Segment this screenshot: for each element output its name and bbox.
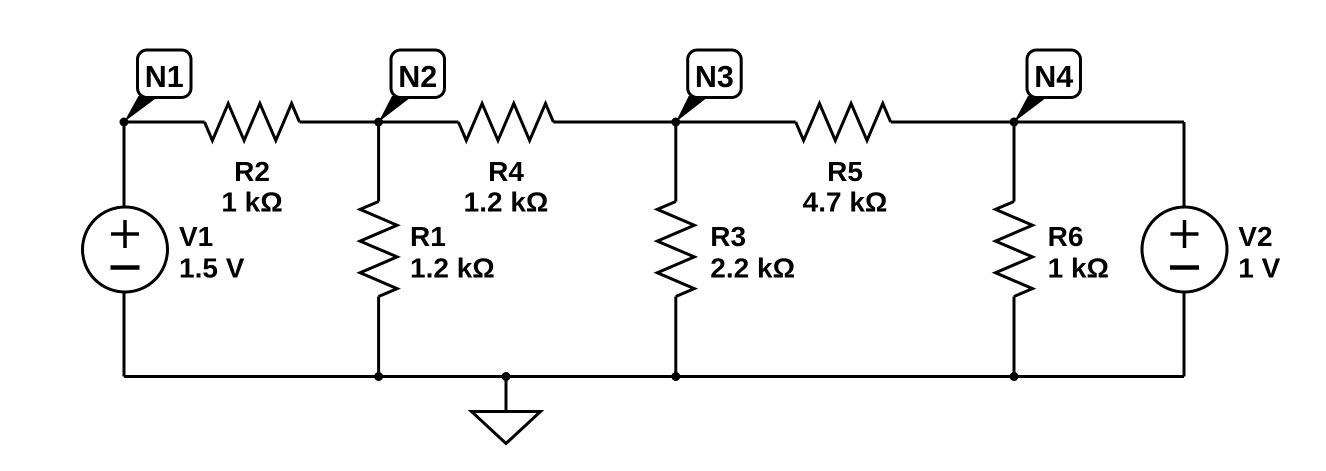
label V1 <box>179 221 245 283</box>
voltage source V2 <box>1142 207 1227 292</box>
node label N2 <box>379 50 445 122</box>
wire bottom rail <box>124 375 1184 378</box>
svg-text:R2: R2 <box>234 156 270 187</box>
wire R6 bottom stub <box>1013 297 1016 377</box>
ground <box>472 377 541 444</box>
svg-text:4.7 kΩ: 4.7 kΩ <box>803 187 888 218</box>
node label N4 <box>1014 50 1081 122</box>
label V2 <box>1238 221 1280 283</box>
svg-text:N4: N4 <box>1034 60 1073 94</box>
svg-text:1 V: 1 V <box>1238 252 1280 283</box>
svg-text:V2: V2 <box>1238 221 1272 252</box>
resistor R1 <box>360 202 397 297</box>
svg-text:2.2 kΩ: 2.2 kΩ <box>710 252 795 283</box>
junction R6-bottom <box>1010 372 1019 381</box>
label R2 <box>221 156 282 218</box>
label R5 <box>803 156 888 218</box>
resistor R6 <box>996 202 1033 297</box>
svg-text:N1: N1 <box>145 60 184 94</box>
wire R3 bottom stub <box>674 297 677 377</box>
resistor R3 <box>657 202 694 297</box>
node N3 dot <box>671 118 680 127</box>
svg-text:1 kΩ: 1 kΩ <box>1048 252 1109 283</box>
svg-text:R5: R5 <box>827 156 863 187</box>
label R4 <box>464 156 549 218</box>
junction R3-bottom <box>671 372 680 381</box>
svg-text:R6: R6 <box>1048 221 1084 252</box>
node N2 dot <box>374 118 383 127</box>
wire top rail N1-N2 (through R2 stubs) <box>124 121 205 124</box>
junction R1-bottom <box>374 372 383 381</box>
node N4 dot <box>1010 118 1019 127</box>
node label N3 <box>676 50 741 122</box>
svg-text:R3: R3 <box>710 221 746 252</box>
label R6 <box>1048 221 1109 283</box>
wire R4 to N3 and to R5 <box>553 121 795 124</box>
svg-text:V1: V1 <box>179 221 213 252</box>
wire R6 top stub <box>1013 122 1016 202</box>
node N1 dot <box>120 118 129 127</box>
resistor R2 <box>205 104 300 141</box>
wire left edge vertical <box>123 122 126 377</box>
wire R3 top stub <box>674 122 677 202</box>
svg-text:R1: R1 <box>410 221 446 252</box>
wire R2 to N2 <box>300 121 459 124</box>
svg-text:1.2 kΩ: 1.2 kΩ <box>410 252 495 283</box>
label R3 <box>710 221 795 283</box>
svg-text:N2: N2 <box>398 60 437 94</box>
resistor R4 <box>458 104 553 141</box>
resistor R5 <box>796 104 891 141</box>
voltage source V1 <box>83 207 168 292</box>
node label N1 <box>124 50 191 122</box>
svg-text:1 kΩ: 1 kΩ <box>221 187 282 218</box>
wire R1 bottom stub <box>377 297 380 377</box>
svg-text:1.2 kΩ: 1.2 kΩ <box>464 187 549 218</box>
junction ground <box>502 372 511 381</box>
wire R1 top stub <box>377 122 380 202</box>
wire R5 to N4 to top-right corner <box>891 121 1184 124</box>
svg-text:1.5 V: 1.5 V <box>179 252 245 283</box>
wire right edge vertical <box>1183 122 1186 377</box>
svg-text:R4: R4 <box>488 156 524 187</box>
label R1 <box>410 221 495 283</box>
svg-text:N3: N3 <box>695 60 734 94</box>
